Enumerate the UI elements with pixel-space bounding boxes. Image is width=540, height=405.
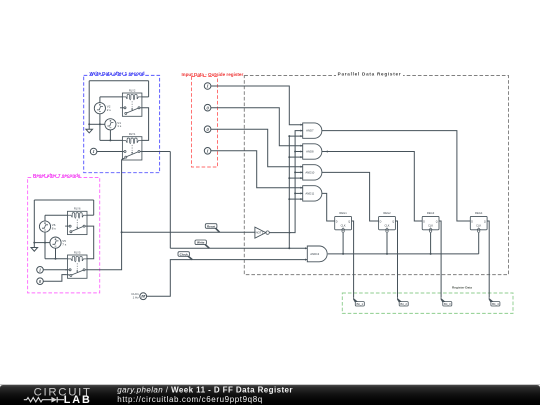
node 0: [37, 278, 44, 285]
wire: Reset line: [122, 231, 255, 233]
wire: notreset bus branch: [295, 171, 303, 173]
wire: write riser from RLY1: [169, 152, 171, 249]
svg-text:Reset: Reset: [207, 224, 215, 228]
net label Reset: [205, 224, 219, 233]
node 1: [90, 148, 97, 155]
svg-text:RLY1: RLY1: [129, 132, 136, 136]
svg-text:1: 1: [92, 149, 94, 154]
wire: RLY5 coil feed line: [45, 258, 68, 260]
AND gate AND10: [303, 165, 322, 180]
svg-text:Q: Q: [484, 221, 486, 224]
wire: REG4 clk to AND13 out line: [478, 233, 480, 254]
svg-text:gary.phelan / Week 11 - D FF D: gary.phelan / Week 11 - D FF Data Regist…: [117, 386, 293, 395]
voltage source V5 leads: [55, 248, 57, 259]
svg-text:D: D: [380, 221, 382, 224]
relay RLY6: [65, 207, 87, 235]
svg-text:D: D: [423, 221, 425, 224]
AND gate AND8: [303, 144, 322, 159]
svg-text:Bit_4: Bit_4: [492, 302, 499, 306]
pin arrows: [300, 124, 302, 126]
svg-text:1: 1: [206, 149, 208, 154]
wire: pink ground rail: [34, 242, 50, 244]
group box: Input Data - Outside register: [192, 77, 218, 168]
voltage source V1 1 s: [105, 119, 122, 130]
voltage source V2 leads: [99, 97, 101, 103]
wire: notreset bus branch: [295, 192, 303, 194]
net label Write: [195, 240, 209, 248]
wire: input 2 to AND8: [211, 108, 303, 146]
wire: AND10 out to REG2 D: [322, 172, 379, 221]
wire: write bus branch: [289, 177, 302, 179]
svg-text:Q: Q: [348, 221, 350, 224]
svg-text:D: D: [471, 221, 473, 224]
wire: AND7 out to REG4 D: [322, 131, 470, 221]
wire: AND11 out to REG1 D: [322, 193, 335, 221]
wire: loop down to RLY6 coil right: [93, 200, 95, 215]
wire: RLY1 switch right to write riser: [142, 151, 170, 153]
wire: RLY5 switch right to RLY1 NC (vertical x=121.6): [87, 160, 122, 270]
group box: Reset after 7 seconds: [28, 178, 100, 293]
wire: RLY2 switch right down to RLY1 coil right: [142, 108, 149, 141]
probe Bit_3: [441, 298, 452, 307]
voltage source V6 leads: [44, 215, 46, 221]
wire: REG2 clk to AND13 out line: [386, 233, 388, 254]
svg-text:LAB: LAB: [64, 394, 92, 405]
svg-text:AND7: AND7: [306, 129, 314, 133]
relay RLY2: [120, 88, 142, 116]
wire: AND8 out to REG3 D: [322, 152, 422, 222]
wire: REG2 Q to probe: [395, 221, 397, 298]
svg-text:Parallel Data Register: Parallel Data Register: [338, 72, 402, 77]
svg-text:RLY2: RLY2: [129, 88, 136, 92]
svg-text:Reset after 7 seconds: Reset after 7 seconds: [33, 173, 81, 178]
wire: input 4 to AND11: [211, 151, 303, 188]
D flip-flop REG3: [422, 211, 439, 232]
svg-text:CLK: CLK: [341, 223, 346, 227]
probe Bit_2: [397, 298, 408, 307]
AND gate AND11: [303, 186, 322, 201]
D flip-flop REG2: [379, 211, 396, 232]
wire: input 1 to AND7: [211, 86, 303, 125]
svg-text:Q: Q: [436, 221, 438, 224]
svg-text:REG1: REG1: [339, 211, 347, 215]
wire: write bus branch: [289, 198, 302, 200]
svg-text:NOT1: NOT1: [256, 231, 264, 235]
relay RLY1: [120, 132, 142, 160]
node 1: [204, 83, 211, 90]
wire: REG1 Q to probe: [352, 221, 354, 298]
voltage source V1 leads: [109, 130, 111, 141]
group box: Write Data after 1 second: [84, 75, 160, 172]
D flip-flop REG1: [335, 211, 352, 232]
node 0: [204, 126, 211, 133]
inverter NOT1: [255, 227, 269, 238]
voltage source V6 8 s: [39, 221, 56, 232]
svg-text:7 s: 7 s: [62, 243, 67, 247]
wire: REG1 clk to AND13 out line: [342, 233, 344, 254]
wire: V6 to RLY6 coil: [45, 214, 68, 216]
svg-text:CLK: CLK: [384, 223, 389, 227]
relay RLY5: [65, 250, 87, 278]
probe Bit_1: [353, 298, 364, 307]
wire: RLY1 coil feed line: [100, 139, 123, 141]
ground (pink box): [31, 243, 38, 252]
voltage source V2 2 s: [94, 103, 111, 114]
svg-text:1 Hz: 1 Hz: [133, 296, 140, 300]
wire: AND13 output clock line: [328, 253, 479, 255]
svg-text:Register Data: Register Data: [452, 285, 472, 289]
wire: write bus branch: [289, 156, 302, 158]
svg-text:Bit_1: Bit_1: [357, 302, 364, 306]
wire: ground rail: [89, 123, 105, 125]
svg-text:AND11: AND11: [305, 191, 314, 195]
wire: NOT1 out to notreset bus: [269, 131, 302, 233]
svg-text:Q: Q: [392, 221, 394, 224]
wire: REG4 Q to probe: [487, 221, 489, 298]
group box: Register Data: [342, 293, 513, 313]
wire: pink box top loop: [34, 199, 93, 201]
svg-text:Write: Write: [197, 241, 205, 245]
probe Bit_4: [489, 298, 500, 307]
group box: Parallel Data Register: [244, 76, 508, 275]
svg-text:Clock: Clock: [180, 252, 189, 256]
svg-text:Input Data - Outside register: Input Data - Outside register: [182, 72, 244, 77]
ground (blue box): [86, 124, 93, 133]
svg-text:Bit_3: Bit_3: [444, 302, 451, 306]
AND gate AND13: [307, 246, 327, 262]
svg-text:REG2: REG2: [383, 211, 391, 215]
wire: notreset bus branch: [295, 151, 303, 153]
wire: blue box top loop: [89, 80, 148, 82]
voltage source V5 7 s: [50, 237, 67, 248]
wire: V2 to RLY2 coil: [100, 96, 123, 98]
svg-text:1 s: 1 s: [117, 124, 122, 128]
svg-text:RLY6: RLY6: [74, 207, 81, 211]
wire: write bus vertical: [289, 136, 302, 248]
wire: node 0 to RLY5 NC contact: [43, 275, 66, 282]
node 1: [37, 267, 44, 274]
svg-text:AND10: AND10: [305, 170, 314, 174]
wire: loop down to RLY2 coil right: [148, 81, 150, 97]
net label Clock: [178, 252, 192, 260]
svg-text:http://circuitlab.com/c6eru9pp: http://circuitlab.com/c6eru9ppt9q8q: [117, 395, 263, 404]
D flip-flop REG4: [470, 211, 487, 232]
wire: clock to AND13: [147, 260, 308, 297]
svg-text:CLK: CLK: [428, 223, 433, 227]
svg-text:Write Data after 1 second: Write Data after 1 second: [90, 71, 145, 76]
svg-text:2 s: 2 s: [107, 108, 112, 112]
wire: input 3 to AND10: [211, 129, 303, 167]
wire: node 1 to RLY5: [43, 269, 67, 271]
svg-text:8 s: 8 s: [52, 226, 57, 230]
svg-text:AND8: AND8: [306, 150, 314, 154]
wire: REG3 Q to probe: [439, 221, 441, 298]
svg-text:Bit_2: Bit_2: [400, 302, 407, 306]
svg-text:CLK: CLK: [476, 223, 481, 227]
svg-text:AND13: AND13: [310, 252, 319, 256]
svg-text:REG3: REG3: [427, 211, 435, 215]
svg-text:1: 1: [206, 84, 208, 89]
node 0: [204, 104, 211, 111]
wire: Write line: [170, 247, 307, 249]
wire: REG3 clk to AND13 out line: [430, 233, 432, 254]
node 1: [204, 148, 211, 155]
svg-text:REG4: REG4: [475, 211, 483, 215]
svg-text:1: 1: [39, 268, 41, 273]
AND gate AND7: [303, 123, 322, 138]
wire: RLY6 switch right down to RLY5 coil right: [87, 226, 94, 259]
svg-text:RLY5: RLY5: [74, 250, 81, 254]
CircuitLab logo: [24, 386, 92, 405]
wire terminal arrow on AND8 output: [325, 150, 327, 152]
clock source CLK1: [131, 292, 146, 300]
svg-text:D: D: [336, 221, 338, 224]
wire: node 1 to RLY1: [97, 151, 123, 153]
